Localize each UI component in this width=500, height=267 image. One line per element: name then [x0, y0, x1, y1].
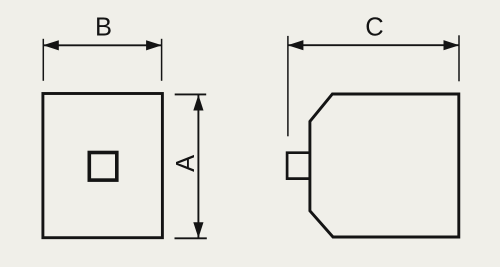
dimension C arrowhead right	[444, 40, 460, 50]
dimension B extension line right	[161, 39, 163, 81]
dimension C arrowhead left	[288, 40, 304, 50]
dimension C extension line right	[458, 35, 460, 81]
front view body outline	[43, 94, 162, 238]
dimension C line	[288, 44, 459, 46]
side view terminal tab	[287, 153, 310, 179]
dimension A extension tick bottom	[175, 237, 207, 239]
svg-text:B: B	[95, 13, 112, 41]
dimension B line	[43, 44, 161, 46]
dimension C extension line left	[287, 36, 289, 136]
dimension A extension tick top	[175, 93, 207, 95]
dimension A arrowhead bottom	[193, 222, 203, 238]
svg-text:C: C	[365, 13, 383, 41]
dimension B arrowhead left	[43, 40, 59, 50]
dimension B arrowhead right	[146, 40, 162, 50]
dimension A line	[197, 94, 199, 238]
dimension A arrowhead top	[193, 95, 203, 111]
front view center square hole	[89, 153, 117, 181]
dimension B extension line left	[42, 39, 44, 81]
side view body outline with chamfered left corners	[310, 94, 459, 237]
svg-text:A: A	[172, 155, 200, 172]
